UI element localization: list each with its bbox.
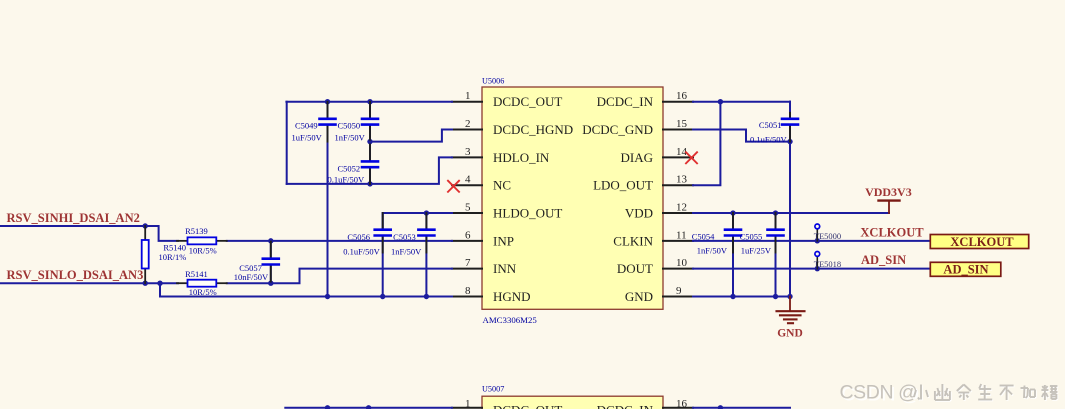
pin 3 HDLO_IN (452, 146, 550, 165)
svg-text:HDLO_IN: HDLO_IN (493, 150, 550, 165)
op-amp U1: isolated modulator U5006 AMC3306M25 (482, 87, 663, 309)
svg-text:DCDC_HGND: DCDC_HGND (493, 122, 573, 137)
junction C5050 bottom (367, 139, 372, 144)
svg-text:RSV_SINHI_DSAI_AN2: RSV_SINHI_DSAI_AN2 (7, 211, 140, 225)
junction DCDC_IN (718, 99, 723, 104)
svg-text:AD_SIN: AD_SIN (861, 253, 906, 267)
svg-text:DCDC_OUT: DCDC_OUT (493, 94, 562, 109)
pin 2 DCDC_HGND (452, 118, 573, 137)
no-connect X pin 14 (685, 152, 697, 164)
svg-text:1uF/50V: 1uF/50V (292, 132, 323, 142)
wire DOUT net (693, 268, 930, 270)
svg-text:C5051: C5051 (759, 120, 782, 130)
wire U5007 pin16 net (693, 407, 790, 409)
junction C5051 bottom (787, 139, 792, 144)
wire bottom loop to HDLO_IN (287, 157, 452, 184)
svg-text:CSDN @: CSDN @ (840, 382, 918, 404)
svg-text:VDD3V3: VDD3V3 (865, 185, 912, 199)
pin 16 DCDC_IN (597, 90, 693, 109)
svg-text:12: 12 (676, 201, 687, 213)
svg-text:3: 3 (465, 146, 471, 158)
svg-text:DCDC_GND: DCDC_GND (582, 122, 653, 137)
junction C5053 top (424, 210, 429, 215)
wire left loop vertical (286, 102, 288, 184)
svg-text:1nF/50V: 1nF/50V (335, 132, 366, 142)
capacitor C5056 (343, 213, 392, 296)
wire CLKIN net (693, 240, 930, 242)
junction HGND branch (157, 281, 162, 286)
junction SINHI/R5140 (143, 223, 148, 228)
svg-text:0.1uF/50V: 0.1uF/50V (343, 246, 380, 256)
svg-text:U5007: U5007 (482, 385, 504, 394)
capacitor C5052 (328, 142, 380, 185)
no-connect X pin 4 (447, 180, 459, 192)
svg-text:R5141: R5141 (185, 269, 208, 279)
capacitor C5050 (335, 102, 380, 143)
svg-text:1nF/50V: 1nF/50V (697, 246, 728, 256)
svg-text:C5054: C5054 (692, 231, 715, 241)
svg-text:C5055: C5055 (740, 231, 763, 241)
pin 10 DOUT (617, 257, 693, 276)
capacitor C5053 (391, 213, 436, 296)
capacitor C5049 (292, 102, 337, 297)
wire DCDC_HGND jog (370, 130, 452, 142)
svg-text:NC: NC (493, 178, 511, 193)
svg-text:CLKIN: CLKIN (613, 233, 653, 248)
svg-text:2: 2 (465, 118, 471, 130)
resistor R5139 (177, 226, 227, 256)
svg-text:HLDO_OUT: HLDO_OUT (493, 205, 562, 220)
wire VDD net (693, 212, 889, 214)
junction C5055 top (773, 210, 778, 215)
pin 1 U5007 DCDC_OUT (452, 398, 562, 409)
junction TE5000 (815, 238, 820, 243)
resistor R5140 (142, 226, 187, 283)
junction C5050 top (367, 99, 372, 104)
resistor R5141 (177, 269, 227, 297)
junction GND rail (787, 294, 792, 299)
svg-text:HGND: HGND (493, 289, 531, 304)
svg-text:0.1uF/50V: 0.1uF/50V (750, 135, 787, 145)
svg-text:LDO_OUT: LDO_OUT (593, 178, 653, 193)
svg-text:DOUT: DOUT (617, 261, 653, 276)
svg-text:C5050: C5050 (338, 121, 361, 131)
junction C5055 bottom (773, 294, 778, 299)
wire INP net (227, 240, 452, 242)
wire GND net (693, 296, 790, 298)
svg-text:AD_SIN: AD_SIN (943, 263, 988, 277)
svg-text:U5006: U5006 (482, 77, 504, 86)
svg-text:16: 16 (676, 90, 688, 102)
svg-text:DCDC_IN: DCDC_IN (597, 403, 654, 409)
pin 15 DCDC_GND (582, 118, 693, 137)
watermark CSDN (840, 382, 1059, 406)
svg-text:DIAG: DIAG (621, 150, 654, 165)
value AMC3306M25 (483, 315, 538, 325)
svg-text:INP: INP (493, 233, 514, 248)
port XCLKOUT (930, 235, 1028, 249)
svg-text:10nF/50V: 10nF/50V (234, 272, 269, 282)
svg-text:5: 5 (465, 201, 471, 213)
svg-text:1uF/25V: 1uF/25V (741, 246, 772, 256)
pin 14 DIAG (621, 146, 694, 165)
test point TE5018 (814, 252, 841, 269)
svg-text:VDD: VDD (625, 205, 653, 220)
pin 5 HLDO_OUT (452, 201, 562, 220)
svg-text:GND: GND (625, 289, 653, 304)
junction C5057 top (268, 238, 273, 243)
capacitor C5057 (234, 241, 280, 283)
pin 6 INP (452, 229, 514, 248)
wire DCDC_IN net (693, 101, 790, 103)
svg-text:XCLKOUT: XCLKOUT (860, 225, 924, 239)
op-amp U2: isolated modulator U5007 (partial) (482, 396, 663, 409)
svg-text:10R/1%: 10R/1% (159, 252, 187, 262)
net label XCLKOUT (860, 225, 924, 239)
svg-text:1nF/50V: 1nF/50V (391, 246, 422, 256)
net label AD_SIN (861, 253, 906, 267)
pin 7 INN (452, 257, 517, 276)
wire DCDC_GND jog (693, 130, 790, 142)
junction C5054 bottom (730, 294, 735, 299)
capacitor C5051 (750, 102, 799, 145)
svg-text:8: 8 (465, 285, 471, 297)
junction C5053 bottom (424, 294, 429, 299)
pin 8 HGND (452, 285, 531, 304)
designator U5006 (482, 77, 504, 86)
junction C5049 bottom (325, 294, 330, 299)
svg-text:GND: GND (777, 328, 803, 340)
junction C5054 top (730, 210, 735, 215)
power VDD3V3 (865, 185, 912, 213)
svg-text:TE5018: TE5018 (814, 259, 841, 269)
wire SINHI net (0, 226, 178, 241)
svg-text:AMC3306M25: AMC3306M25 (483, 315, 538, 325)
svg-text:11: 11 (676, 229, 687, 241)
wire HLDO_OUT to C5056/C5053 (383, 213, 452, 229)
svg-text:R5140: R5140 (163, 242, 186, 252)
junction R5140 bottom (143, 281, 148, 286)
wire C5051 bottom to GND rail (789, 142, 791, 297)
wire U5007 pin1 net (285, 407, 452, 409)
svg-text:10: 10 (676, 257, 688, 269)
svg-text:13: 13 (676, 174, 688, 186)
svg-text:10R/5%: 10R/5% (189, 287, 217, 297)
svg-text:6: 6 (465, 229, 471, 241)
svg-text:RSV_SINLO_DSAI_AN3: RSV_SINLO_DSAI_AN3 (7, 268, 144, 282)
svg-text:16: 16 (676, 398, 688, 409)
svg-text:C5052: C5052 (338, 163, 361, 173)
ground GND (777, 297, 805, 340)
svg-text:15: 15 (676, 118, 688, 130)
wire R5141 to INN (227, 269, 452, 284)
svg-text:4: 4 (465, 174, 471, 186)
wire DCDC_IN to LDO_OUT (693, 102, 720, 185)
pin 12 VDD (625, 201, 693, 220)
pin 4 NC (452, 174, 511, 193)
svg-text:1: 1 (465, 90, 471, 102)
svg-text:1: 1 (465, 398, 471, 409)
svg-text:R5139: R5139 (185, 226, 208, 236)
svg-text:DCDC_IN: DCDC_IN (597, 94, 654, 109)
wire SINLO net (0, 282, 178, 284)
svg-text:10R/5%: 10R/5% (189, 246, 217, 256)
port AD_SIN (930, 262, 1001, 276)
test point TE5000 (814, 224, 841, 241)
pin 1 DCDC_OUT (452, 90, 562, 109)
junction C5057 bottom (268, 281, 273, 286)
junction U5007 C cap tops (325, 405, 723, 409)
pin 9 GND (625, 285, 693, 304)
junction C5049 top (325, 99, 330, 104)
svg-text:DCDC_OUT: DCDC_OUT (493, 403, 562, 409)
capacitor C5054 (692, 213, 743, 296)
svg-text:7: 7 (465, 257, 471, 269)
svg-text:XCLKOUT: XCLKOUT (950, 235, 1014, 249)
junction TE5018 (815, 266, 820, 271)
pin 16 U5007 DCDC_IN (597, 398, 693, 409)
svg-text:C5056: C5056 (347, 232, 370, 242)
pin 13 LDO_OUT (593, 174, 693, 193)
junction C5052 bottom (367, 181, 372, 186)
wire C5051 top drop (789, 102, 791, 116)
pin 11 CLKIN (613, 229, 693, 248)
svg-text:INN: INN (493, 261, 517, 276)
wire net DCDC_OUT (pin1 to left loop) (286, 101, 452, 103)
net label RSV_SINLO_DSAI_AN3 (7, 268, 144, 282)
designator U5007 (482, 385, 504, 394)
svg-text:TE5000: TE5000 (814, 231, 841, 241)
junction C5056 bottom (380, 294, 385, 299)
svg-text:9: 9 (676, 285, 682, 297)
svg-text:0.1uF/50V: 0.1uF/50V (328, 174, 365, 184)
svg-text:C5049: C5049 (295, 121, 318, 131)
wire HGND branch (160, 283, 452, 296)
capacitor C5055 (740, 213, 785, 296)
net label RSV_SINHI_DSAI_AN2 (7, 211, 140, 225)
svg-text:C5053: C5053 (393, 232, 416, 242)
